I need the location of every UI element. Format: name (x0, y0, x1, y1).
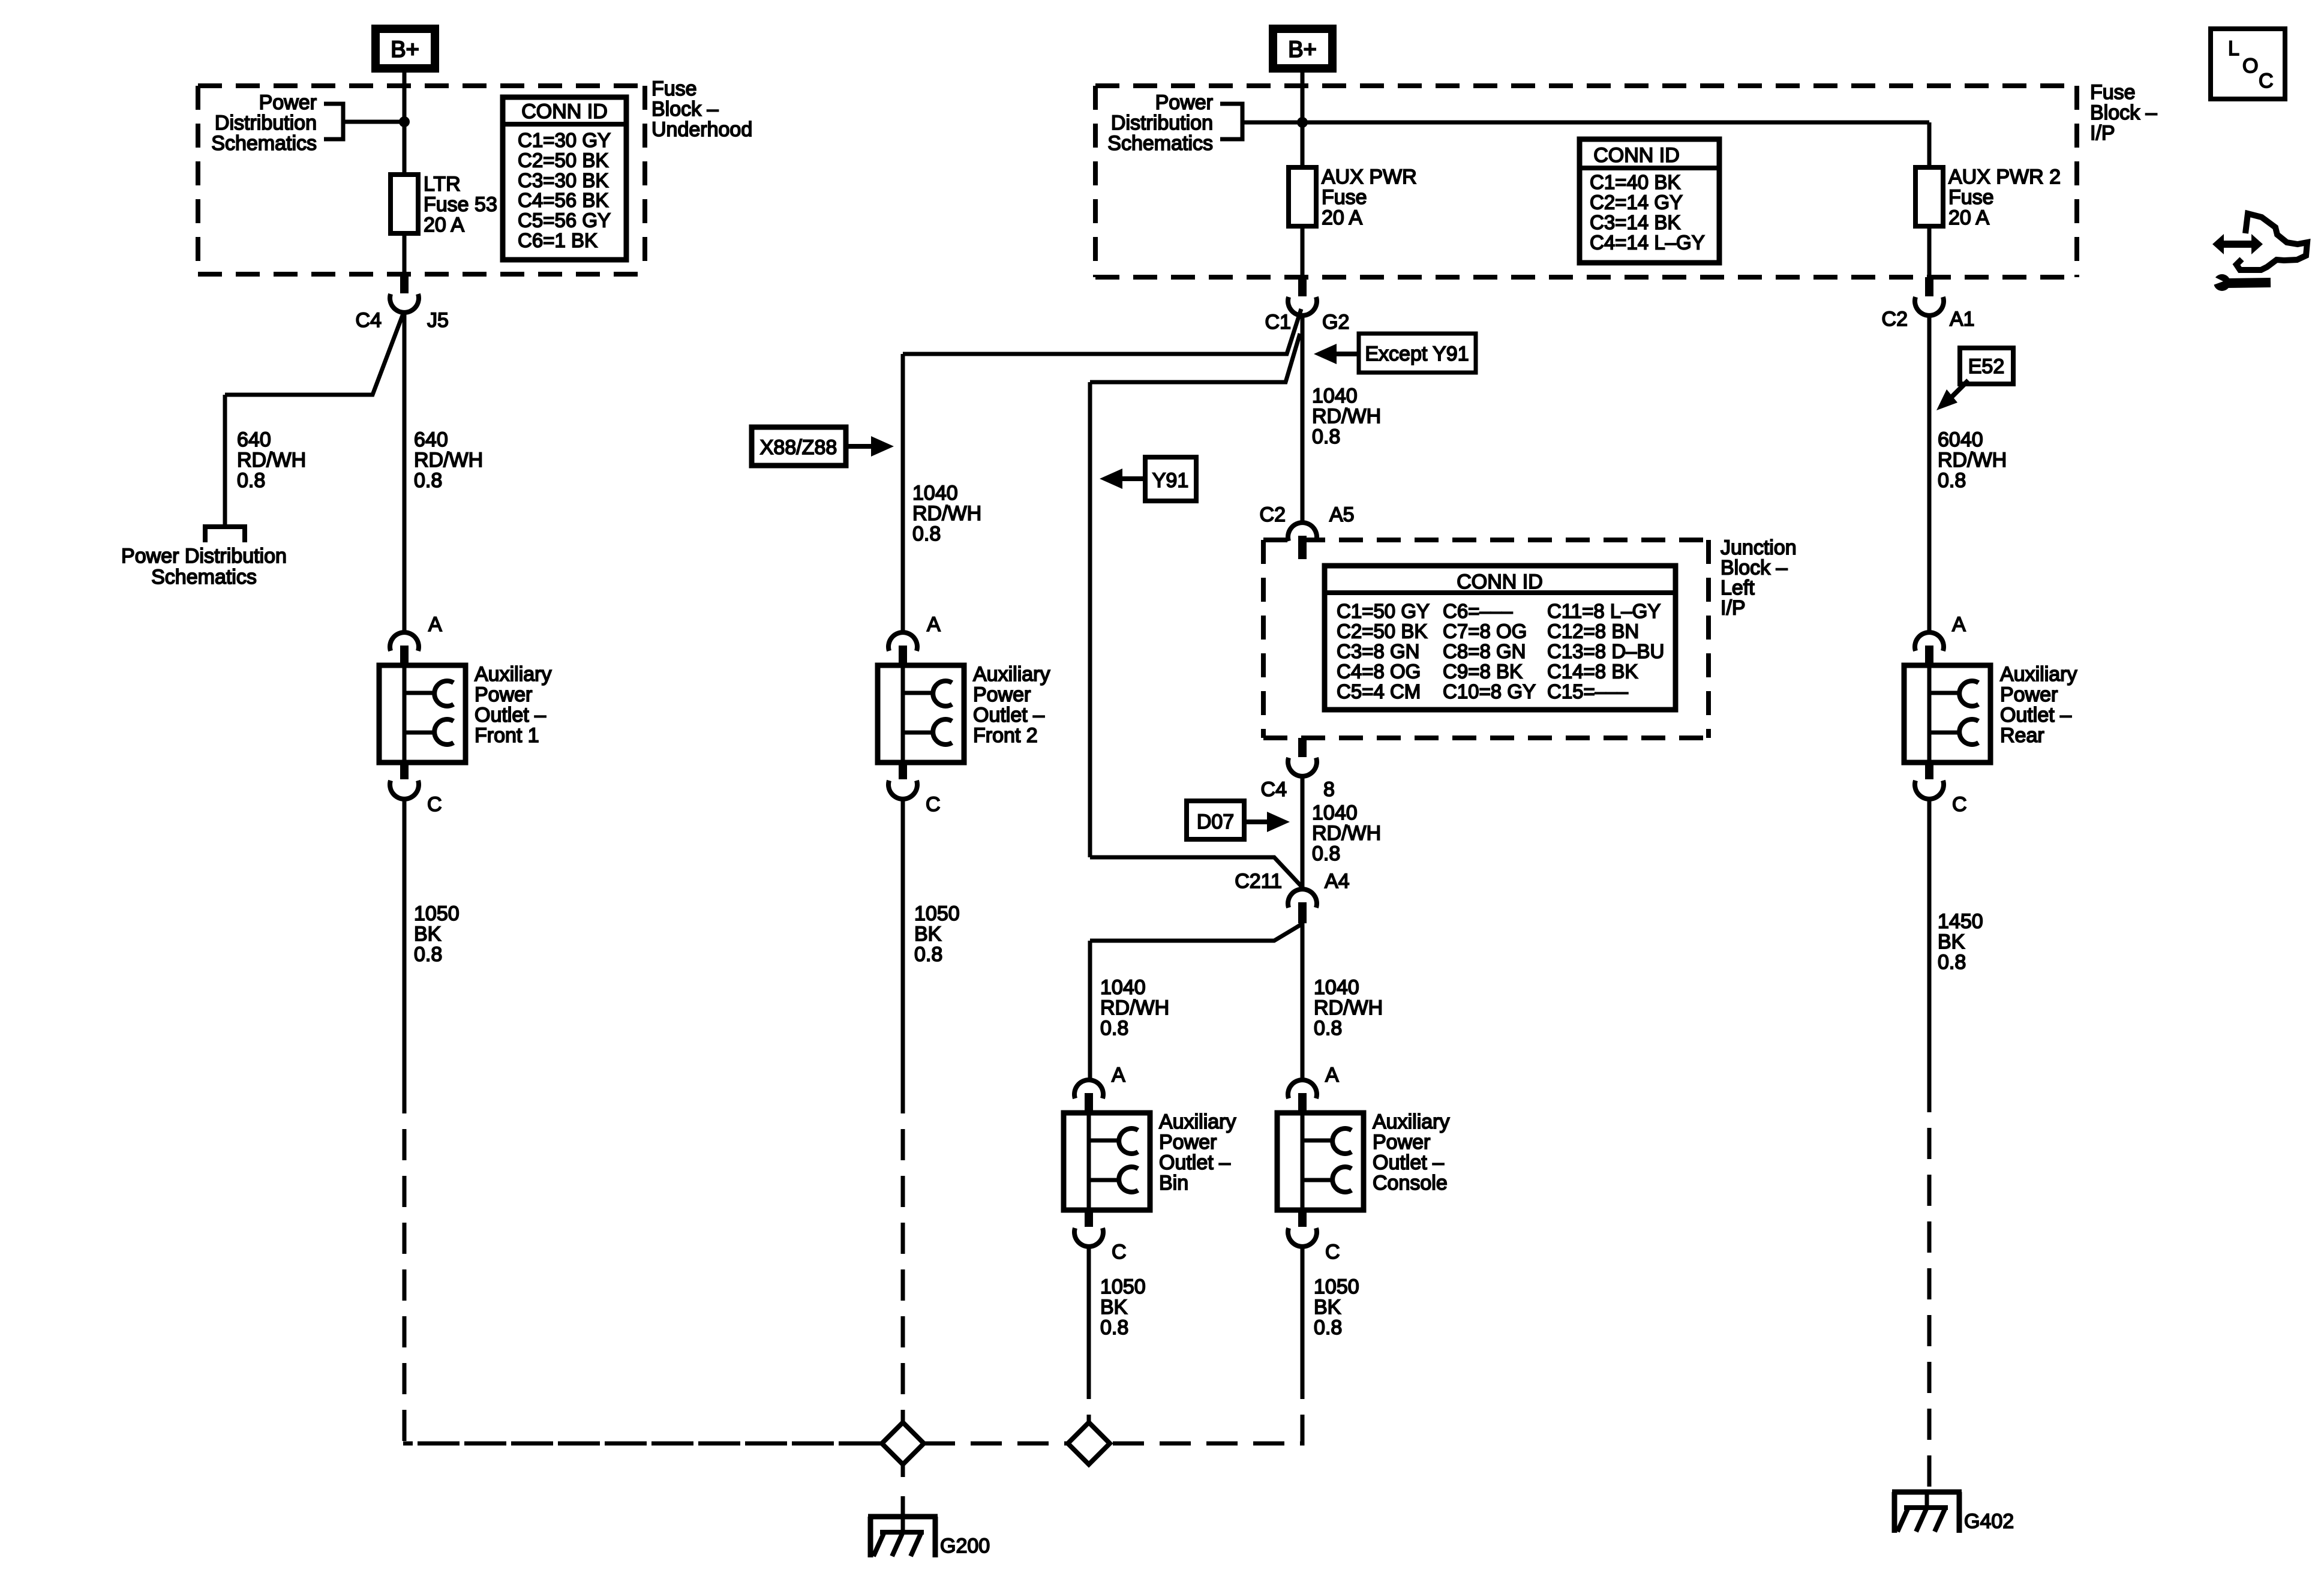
svg-text:Fuse: Fuse (651, 77, 697, 100)
svg-text:C: C (427, 793, 442, 816)
svg-text:C1=50 GY: C1=50 GY (1337, 600, 1430, 622)
svg-text:C9=8 BK: C9=8 BK (1443, 661, 1523, 683)
svg-text:C4=8 OG: C4=8 OG (1337, 661, 1421, 683)
svg-text:1450: 1450 (1938, 910, 1983, 933)
svg-text:RD/WH: RD/WH (237, 449, 306, 472)
svg-text:G402: G402 (1964, 1510, 2014, 1533)
svg-text:Junction: Junction (1721, 536, 1797, 559)
svg-text:Fuse: Fuse (1948, 186, 1994, 209)
svg-text:6040: 6040 (1938, 428, 1983, 451)
svg-text:0.8: 0.8 (1100, 1017, 1128, 1040)
svg-text:1040: 1040 (1312, 385, 1358, 407)
svg-text:O: O (2242, 55, 2258, 77)
svg-text:Power: Power (475, 683, 532, 706)
svg-text:C3=14 BK: C3=14 BK (1590, 211, 1680, 233)
svg-text:Fuse: Fuse (1322, 186, 1367, 209)
svg-text:Power: Power (973, 683, 1031, 706)
svg-text:BK: BK (1100, 1296, 1128, 1319)
svg-text:Schematics: Schematics (151, 566, 257, 589)
svg-text:C14=8 BK: C14=8 BK (1547, 661, 1638, 683)
svg-text:I/P: I/P (2090, 122, 2115, 145)
svg-text:BK: BK (914, 923, 942, 945)
svg-text:RD/WH: RD/WH (1100, 996, 1169, 1019)
svg-text:Except Y91: Except Y91 (1365, 343, 1469, 365)
svg-text:I/P: I/P (1721, 597, 1746, 620)
svg-text:J5: J5 (427, 309, 449, 332)
svg-text:BK: BK (1314, 1296, 1341, 1319)
svg-text:20 A: 20 A (1948, 206, 1989, 229)
svg-text:1040: 1040 (1100, 976, 1146, 999)
svg-text:Block –: Block – (651, 98, 719, 121)
svg-text:C7=8 OG: C7=8 OG (1443, 620, 1527, 643)
svg-text:C5=56 GY: C5=56 GY (518, 209, 611, 232)
svg-text:C: C (1952, 793, 1967, 816)
svg-text:C8=8 GN: C8=8 GN (1443, 640, 1526, 662)
svg-text:C6=1 BK: C6=1 BK (518, 229, 597, 251)
svg-text:C10=8 GY: C10=8 GY (1443, 680, 1536, 703)
svg-text:Auxiliary: Auxiliary (1159, 1110, 1236, 1133)
svg-text:RD/WH: RD/WH (414, 449, 483, 472)
svg-text:RD/WH: RD/WH (912, 502, 981, 525)
svg-text:1050: 1050 (1100, 1275, 1146, 1298)
svg-text:X88/Z88: X88/Z88 (760, 436, 837, 459)
svg-text:LTR: LTR (424, 173, 461, 196)
svg-text:Distribution: Distribution (1111, 112, 1213, 134)
svg-text:RD/WH: RD/WH (1312, 822, 1381, 845)
svg-text:Schematics: Schematics (211, 132, 317, 155)
svg-text:C1: C1 (1265, 311, 1291, 334)
svg-text:C5=4 CM: C5=4 CM (1337, 680, 1421, 703)
svg-text:Fuse: Fuse (2090, 81, 2136, 104)
svg-text:0.8: 0.8 (1314, 1316, 1342, 1339)
svg-text:AUX PWR: AUX PWR (1322, 166, 1417, 188)
svg-text:1040: 1040 (1314, 976, 1359, 999)
svg-text:B+: B+ (391, 37, 419, 62)
svg-text:Block –: Block – (1721, 557, 1788, 580)
svg-text:A: A (428, 613, 442, 636)
svg-text:A4: A4 (1325, 870, 1350, 893)
svg-text:RD/WH: RD/WH (1312, 405, 1381, 428)
svg-text:20 A: 20 A (1322, 206, 1362, 229)
svg-text:C4=56 BK: C4=56 BK (518, 189, 608, 211)
svg-text:Front 1: Front 1 (475, 724, 539, 747)
svg-text:Schematics: Schematics (1107, 132, 1213, 155)
svg-text:D07: D07 (1197, 810, 1234, 833)
svg-text:Auxiliary: Auxiliary (1373, 1110, 1449, 1133)
svg-text:C11=8 L–GY: C11=8 L–GY (1547, 600, 1661, 622)
svg-text:0.8: 0.8 (1314, 1017, 1342, 1040)
svg-text:Power: Power (2000, 683, 2058, 706)
svg-text:C2: C2 (1882, 308, 1908, 331)
svg-text:Power: Power (259, 91, 317, 114)
svg-text:C1=30 GY: C1=30 GY (518, 129, 611, 151)
svg-text:8: 8 (1323, 778, 1335, 801)
svg-text:Outlet –: Outlet – (475, 704, 546, 727)
svg-text:Outlet –: Outlet – (973, 704, 1044, 727)
svg-text:B+: B+ (1288, 37, 1317, 62)
svg-text:Auxiliary: Auxiliary (2000, 663, 2077, 686)
svg-text:C2=14 GY: C2=14 GY (1590, 191, 1683, 214)
svg-text:1050: 1050 (914, 902, 960, 925)
svg-text:0.8: 0.8 (914, 943, 942, 966)
svg-text:A1: A1 (1950, 308, 1975, 331)
svg-text:CONN ID: CONN ID (1593, 144, 1680, 167)
svg-text:CONN ID: CONN ID (521, 100, 608, 123)
svg-text:0.8: 0.8 (1100, 1316, 1128, 1339)
svg-text:Front 2: Front 2 (973, 724, 1038, 747)
svg-text:AUX PWR 2: AUX PWR 2 (1948, 166, 2061, 188)
svg-text:A5: A5 (1329, 503, 1355, 526)
svg-text:Power: Power (1373, 1131, 1430, 1154)
svg-text:Block –: Block – (2090, 101, 2157, 124)
svg-text:BK: BK (1938, 930, 1965, 953)
svg-text:C: C (1112, 1241, 1127, 1263)
svg-text:0.8: 0.8 (912, 523, 941, 545)
svg-text:20 A: 20 A (424, 214, 464, 236)
svg-text:C6=–––: C6=––– (1443, 600, 1513, 622)
svg-text:C2=50 BK: C2=50 BK (1337, 620, 1427, 643)
svg-text:Y91: Y91 (1152, 469, 1189, 492)
svg-text:Bin: Bin (1159, 1172, 1188, 1194)
svg-text:C15=–––: C15=––– (1547, 680, 1629, 703)
svg-text:C3=30 BK: C3=30 BK (518, 169, 608, 191)
svg-text:L: L (2228, 37, 2239, 60)
svg-text:1040: 1040 (912, 482, 958, 505)
svg-text:A: A (1325, 1064, 1339, 1086)
svg-text:C4: C4 (1261, 778, 1287, 801)
svg-text:Outlet –: Outlet – (1373, 1151, 1444, 1174)
svg-text:1050: 1050 (414, 902, 460, 925)
svg-text:RD/WH: RD/WH (1314, 996, 1383, 1019)
svg-text:G200: G200 (940, 1535, 990, 1557)
svg-text:C2: C2 (1260, 503, 1286, 526)
svg-text:C: C (1325, 1241, 1340, 1263)
svg-text:0.8: 0.8 (414, 943, 442, 966)
svg-text:1040: 1040 (1312, 801, 1358, 824)
svg-text:C: C (926, 793, 941, 816)
svg-text:Auxiliary: Auxiliary (475, 663, 551, 686)
svg-text:Fuse 53: Fuse 53 (424, 193, 497, 216)
svg-text:0.8: 0.8 (1938, 951, 1966, 974)
svg-text:0.8: 0.8 (237, 469, 265, 492)
svg-text:640: 640 (414, 428, 448, 451)
svg-text:C: C (2259, 70, 2274, 92)
svg-text:0.8: 0.8 (1312, 842, 1340, 865)
svg-text:C2=50 BK: C2=50 BK (518, 149, 608, 171)
svg-text:A: A (927, 613, 941, 636)
svg-text:CONN ID: CONN ID (1457, 571, 1543, 593)
svg-text:640: 640 (237, 428, 271, 451)
svg-text:Outlet –: Outlet – (1159, 1151, 1230, 1174)
svg-text:1050: 1050 (1314, 1275, 1359, 1298)
svg-text:Console: Console (1373, 1172, 1448, 1194)
svg-text:0.8: 0.8 (1938, 469, 1966, 492)
svg-text:C3=8 GN: C3=8 GN (1337, 640, 1419, 662)
svg-text:Underhood: Underhood (651, 118, 752, 141)
svg-text:C4: C4 (356, 309, 382, 332)
svg-text:Power Distribution: Power Distribution (121, 545, 287, 568)
svg-text:A: A (1112, 1064, 1125, 1086)
svg-text:0.8: 0.8 (1312, 425, 1340, 448)
svg-text:C4=14 L–GY: C4=14 L–GY (1590, 232, 1705, 254)
svg-text:C13=8 D–BU: C13=8 D–BU (1547, 640, 1664, 662)
svg-text:Auxiliary: Auxiliary (973, 663, 1050, 686)
svg-text:G2: G2 (1322, 311, 1349, 334)
svg-text:0.8: 0.8 (414, 469, 442, 492)
svg-text:Outlet –: Outlet – (2000, 704, 2071, 727)
svg-text:RD/WH: RD/WH (1938, 449, 2007, 472)
svg-text:Power: Power (1155, 91, 1213, 114)
svg-text:Left: Left (1721, 577, 1755, 599)
svg-text:E52: E52 (1968, 355, 2005, 378)
svg-text:C1=40 BK: C1=40 BK (1590, 171, 1680, 193)
svg-text:Distribution: Distribution (215, 112, 317, 134)
svg-text:Rear: Rear (2000, 724, 2044, 747)
svg-text:C211: C211 (1235, 870, 1282, 893)
svg-text:C12=8 BN: C12=8 BN (1547, 620, 1639, 643)
svg-text:BK: BK (414, 923, 442, 945)
svg-text:Power: Power (1159, 1131, 1217, 1154)
svg-text:A: A (1952, 613, 1966, 636)
